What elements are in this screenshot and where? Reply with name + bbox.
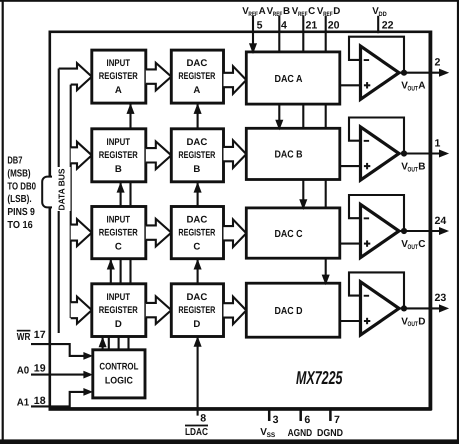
wire DAC C to op-amp C non-inverting input — [339, 243, 361, 245]
svg-text:LOGIC: LOGIC — [105, 375, 133, 386]
svg-text:24: 24 — [435, 215, 447, 227]
MX7225 chip outline — [49, 31, 433, 411]
wire VREFA pin 5 — [249, 16, 256, 53]
svg-text:19: 19 — [34, 362, 46, 374]
svg-text:REGISTER: REGISTER — [99, 305, 138, 316]
svg-text:AGND: AGND — [288, 428, 313, 439]
svg-text:18: 18 — [34, 395, 46, 407]
wire input register D to DAC register D — [146, 296, 172, 324]
svg-text:OUT: OUT — [408, 86, 418, 93]
svg-text:DD: DD — [378, 11, 387, 18]
input register A — [92, 50, 146, 103]
svg-text:SS: SS — [267, 432, 276, 439]
svg-text:DGND: DGND — [317, 428, 343, 439]
op-amp U4 output buffer C — [361, 204, 400, 257]
wire VREFC pin 21 — [300, 16, 307, 209]
svg-text:DAC: DAC — [187, 58, 208, 69]
svg-text:C: C — [308, 6, 315, 17]
op-amp U2 output buffer A — [361, 46, 400, 99]
wire control lines to input register C — [107, 259, 130, 285]
svg-text:22: 22 — [382, 20, 394, 32]
node op-amp C output junction — [401, 228, 407, 234]
svg-text:B: B — [283, 6, 290, 17]
wire feedback loop op-amp D — [349, 272, 404, 308]
control logic U1 — [93, 350, 145, 398]
svg-text:OUT: OUT — [408, 321, 418, 328]
input register B — [92, 129, 146, 182]
svg-text:REF: REF — [323, 11, 333, 18]
svg-text:D: D — [333, 6, 340, 17]
svg-text:DAC B: DAC B — [275, 150, 303, 161]
svg-text:5: 5 — [257, 20, 263, 32]
wire op-amp B output VOUTB — [398, 150, 448, 157]
svg-text:REF: REF — [273, 11, 283, 18]
svg-text:A0: A0 — [17, 365, 30, 376]
op-amp U3 output buffer B — [361, 127, 400, 180]
wire DAC register B to DAC B — [224, 140, 247, 168]
svg-text:DAC: DAC — [187, 292, 208, 303]
wire feedback loop op-amp B — [349, 118, 404, 154]
svg-text:1: 1 — [435, 137, 441, 149]
wire data bus to input register B — [71, 142, 92, 169]
wire LDAC line to DAC register B — [194, 182, 201, 208]
wire VREFD pin 20 — [322, 16, 329, 285]
DAC D — [246, 283, 339, 337]
svg-text:REGISTER: REGISTER — [99, 228, 138, 239]
svg-text:PINS 9: PINS 9 — [7, 207, 35, 218]
wire WR pin 17 — [31, 344, 85, 356]
svg-text:A: A — [418, 81, 425, 92]
wire input register B to DAC register B — [146, 142, 172, 170]
svg-text:17: 17 — [34, 329, 46, 341]
svg-text:8: 8 — [200, 413, 206, 425]
svg-text:OUT: OUT — [408, 166, 418, 173]
wire DAC B to op-amp B non-inverting input — [339, 165, 361, 167]
svg-text:REGISTER: REGISTER — [178, 150, 215, 161]
svg-text:INPUT: INPUT — [107, 215, 131, 226]
DAC C — [246, 208, 339, 258]
svg-text:OUT: OUT — [408, 244, 418, 251]
svg-text:DAC A: DAC A — [275, 74, 304, 85]
wire feedback loop op-amp C — [349, 195, 404, 231]
wire DAC register D to DAC D — [224, 297, 247, 325]
input register D — [92, 284, 146, 337]
svg-text:LDAC: LDAC — [185, 427, 208, 438]
svg-text:A: A — [259, 6, 266, 17]
wire LDAC pin 8 — [194, 337, 201, 416]
svg-text:DAC: DAC — [187, 215, 208, 226]
svg-text:D: D — [115, 319, 122, 330]
power VDD pin 22 wire — [377, 16, 379, 33]
svg-text:REF: REF — [298, 11, 308, 18]
svg-text:B: B — [115, 164, 122, 175]
data bus label — [42, 167, 70, 211]
svg-text:A: A — [193, 85, 200, 96]
svg-text:23: 23 — [435, 292, 447, 304]
node op-amp B output junction — [401, 150, 407, 156]
svg-text:CONTROL: CONTROL — [99, 361, 138, 372]
svg-text:DB7: DB7 — [7, 156, 22, 167]
svg-text:(MSB): (MSB) — [7, 168, 30, 179]
wire control lines to input register B — [117, 182, 131, 208]
node LDAC label — [185, 413, 208, 439]
svg-text:REGISTER: REGISTER — [99, 150, 138, 161]
svg-text:21: 21 — [306, 20, 318, 32]
svg-text:REGISTER: REGISTER — [178, 228, 215, 239]
wire data bus to input register C — [71, 219, 92, 246]
DAC register C — [171, 207, 223, 259]
wire A1 pin 18 — [31, 392, 85, 407]
svg-text:B: B — [418, 162, 425, 173]
wire DAC register A to DAC A — [224, 66, 247, 94]
DAC register D — [171, 284, 223, 337]
svg-text:20: 20 — [328, 20, 340, 32]
wire control lines to input register D — [99, 337, 129, 351]
svg-text:A1: A1 — [17, 398, 30, 409]
svg-text:D: D — [193, 319, 200, 330]
svg-text:DATA BUS: DATA BUS — [57, 168, 67, 210]
wire feedback loop op-amp A — [349, 37, 404, 73]
input register C — [92, 207, 146, 259]
svg-text:C: C — [193, 242, 200, 253]
wire op-amp D output VOUTD — [398, 305, 448, 312]
ground DGND pin 7 — [329, 409, 332, 421]
svg-text:REGISTER: REGISTER — [178, 71, 215, 82]
wire input register A to DAC register A — [146, 63, 172, 91]
svg-text:WR: WR — [17, 332, 31, 343]
svg-text:6: 6 — [304, 414, 310, 426]
svg-text:2: 2 — [435, 57, 441, 69]
svg-text:INPUT: INPUT — [107, 137, 131, 148]
svg-text:A: A — [115, 85, 122, 96]
node WR label — [17, 330, 31, 343]
svg-text:INPUT: INPUT — [107, 58, 131, 69]
wire op-amp C output VOUTC — [398, 227, 448, 234]
wire DAC D to op-amp D non-inverting input — [339, 320, 361, 322]
data bus line — [58, 69, 60, 334]
wire VREFB pin 4 — [276, 16, 283, 130]
wire op-amp A output VOUTA — [398, 69, 448, 76]
wire data bus to input register D — [71, 297, 92, 324]
svg-text:C: C — [115, 242, 122, 253]
ground AGND pin 6 — [299, 409, 302, 421]
svg-text:B: B — [193, 164, 200, 175]
wire LDAC line to DAC register A — [194, 103, 201, 130]
wire DAC A to op-amp A non-inverting input — [339, 84, 361, 86]
svg-text:INPUT: INPUT — [107, 292, 131, 303]
DAC register A — [171, 50, 223, 103]
wire input register C to DAC register C — [146, 219, 172, 247]
wire A0 pin 19 — [31, 374, 85, 376]
svg-text:MX7225: MX7225 — [296, 367, 343, 388]
wire LDAC line to DAC register C — [194, 259, 201, 285]
svg-text:REF: REF — [248, 11, 258, 18]
wire control lines to input register A — [127, 103, 134, 130]
svg-text:C: C — [418, 239, 425, 250]
DAC register B — [171, 129, 223, 182]
svg-text:D: D — [418, 316, 425, 327]
node DB7-DB0 data input label — [7, 156, 36, 232]
op-amp U5 output buffer D — [361, 282, 400, 335]
svg-text:7: 7 — [334, 414, 340, 426]
DAC B — [246, 128, 339, 179]
svg-text:TO DB0: TO DB0 — [7, 181, 36, 192]
svg-text:DAC: DAC — [187, 137, 208, 148]
svg-text:REGISTER: REGISTER — [99, 71, 138, 82]
svg-text:DAC C: DAC C — [275, 229, 304, 240]
svg-text:3: 3 — [273, 414, 279, 426]
node op-amp D output junction — [401, 305, 407, 311]
data bus ladder wire — [70, 85, 72, 318]
svg-text:TO 16: TO 16 — [7, 220, 33, 231]
wire data bus to input register A — [59, 63, 92, 90]
DAC A — [246, 52, 339, 104]
svg-text:DAC D: DAC D — [275, 306, 303, 317]
wire DAC register C to DAC C — [224, 219, 247, 247]
svg-text:REGISTER: REGISTER — [178, 305, 215, 316]
node op-amp A output junction — [401, 70, 407, 76]
svg-text:4: 4 — [281, 20, 287, 32]
svg-text:(LSB).: (LSB). — [7, 194, 31, 205]
ground VSS pin 3 — [268, 409, 271, 421]
